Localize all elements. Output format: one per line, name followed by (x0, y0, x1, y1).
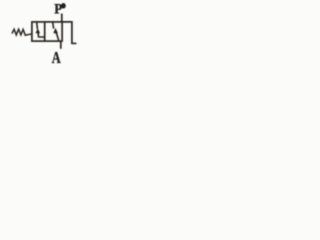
label P (54, 1, 63, 17)
svg-text:A: A (52, 49, 61, 65)
pilot line end bar (71, 42, 76, 44)
spring (12, 29, 32, 35)
right position flow arrow stem from top (52, 22, 55, 28)
left position flow path vertical stem from top (36, 22, 39, 29)
pilot line right side (62, 22, 72, 44)
left position flow path lower segment (38, 33, 44, 38)
valve body outer rectangle (32, 22, 62, 41)
port line P (61, 14, 63, 22)
ink blot right of P (61, 3, 66, 9)
right position flow arrow lower segment (56, 33, 58, 41)
port line A (60, 41, 62, 49)
left position arrowhead (36, 28, 41, 33)
svg-text:P: P (54, 1, 63, 17)
valve center border between position squares (44, 22, 46, 41)
right position arrowhead (53, 28, 58, 33)
label A (52, 49, 61, 67)
